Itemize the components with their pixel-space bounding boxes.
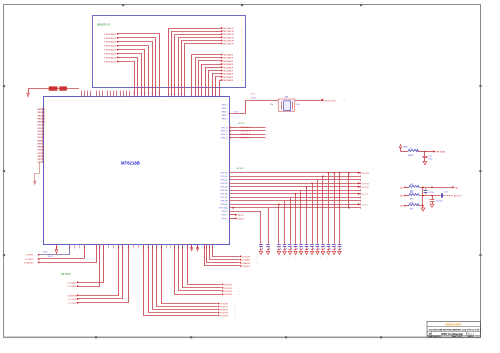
inductor L2 (408, 148, 419, 157)
svg-text:RF VBAT: RF VBAT (436, 151, 446, 154)
svg-text:GPO 12: GPO 12 (221, 131, 228, 133)
text title row (429, 328, 482, 331)
svg-text:1: 1 (178, 248, 179, 250)
capacitor CE10 (321, 245, 325, 251)
baseband IC U1 (44, 97, 230, 245)
net label MC1 (221, 57, 243, 60)
wire keypad row 3 (229, 182, 361, 184)
svg-text:LPD2 R: LPD2 R (224, 291, 232, 293)
svg-text:EINT0: EINT0 (37, 140, 44, 142)
svg-text:1: 1 (182, 248, 183, 250)
net label 32KXI (25, 258, 39, 261)
pins U1 bottom edge (69, 245, 213, 250)
wire keypad col drop 5 (295, 193, 297, 244)
wire P_MD3 (118, 46, 150, 97)
svg-text:C VRTC: C VRTC (25, 255, 34, 257)
wire keypad col drop 7 (306, 186, 308, 244)
svg-text:LSCK R: LSCK R (242, 256, 250, 258)
svg-text:BLM21: BLM21 (408, 155, 414, 157)
svg-text:KP13 1: KP13 1 (222, 218, 228, 220)
wire keypad row 10 (229, 207, 361, 209)
wire LCDR1 (78, 245, 100, 287)
svg-text:MCLK DSP: MCLK DSP (325, 100, 337, 102)
pin name row 10 (219, 208, 228, 210)
wire AD2 out (443, 195, 453, 197)
capacitor C73 (430, 200, 443, 204)
svg-text:MEMORY IF: MEMORY IF (97, 25, 111, 27)
svg-text:32K XI: 32K XI (48, 256, 54, 258)
net label KROW0 (358, 172, 370, 175)
svg-text:1: 1 (206, 248, 207, 250)
svg-text:KP0 140: KP0 140 (221, 173, 228, 175)
ground GE7 (305, 251, 309, 258)
net label MC3 (221, 63, 243, 66)
wire keypad row 8 (229, 200, 361, 202)
svg-text:7: 7 (212, 94, 213, 96)
svg-text:1: 1 (96, 94, 97, 96)
pin name row 1 (221, 176, 228, 178)
pins U1 top-left (81, 91, 130, 97)
wire MCLK out (295, 100, 322, 102)
svg-text:1 TCK: 1 TCK (234, 112, 240, 114)
wire LCDR0 (78, 245, 104, 283)
svg-text:7: 7 (205, 94, 206, 96)
svg-text:MCCM1 R: MCCM1 R (223, 31, 234, 33)
wire keypad row 9 (229, 203, 361, 205)
net label MA2 (221, 33, 243, 36)
svg-text:MCCM5 R: MCCM5 R (223, 44, 234, 46)
ground GE13 (338, 251, 342, 258)
logo MEDIATEK (446, 322, 463, 326)
svg-text:KP1 141: KP1 141 (221, 176, 228, 178)
power arrow VBAT (399, 144, 408, 151)
net label LPD0 (222, 284, 240, 287)
svg-text:22p: 22p (270, 104, 273, 106)
wire keypad col drop 1 (268, 208, 270, 244)
net label VB2 (400, 195, 406, 198)
wire keypad col drop 13 (339, 172, 341, 244)
text NC 0603 (239, 123, 246, 125)
wire LPD3 (175, 245, 222, 295)
svg-text:KP5 145: KP5 145 (221, 190, 228, 192)
pin name row 0 (221, 173, 228, 175)
net label KCOL1 (358, 193, 369, 196)
wire LRSTB (78, 245, 119, 296)
pin name row 9 (221, 204, 228, 206)
svg-text:1: 1 (212, 248, 213, 250)
svg-text:GPIO 1: GPIO 1 (222, 108, 228, 110)
svg-text:1: 1 (152, 248, 153, 250)
power net arrow VIO (27, 89, 30, 97)
wire MA5 (185, 44, 222, 97)
wire keypad row 0 (229, 172, 361, 174)
svg-text:1: 1 (103, 248, 104, 250)
svg-text:MCDA6 R: MCDA6 R (223, 73, 233, 76)
svg-text:1: 1 (113, 94, 114, 96)
svg-text:1: 1 (120, 94, 121, 96)
svg-text:MCDA4 R: MCDA4 R (223, 66, 233, 69)
svg-text:KP7 147: KP7 147 (221, 197, 228, 199)
text 22p 22p (270, 104, 299, 106)
svg-text:8: 8 (178, 94, 179, 96)
svg-text:ADC2 R: ADC2 R (454, 195, 462, 198)
pin name strip U1 left (37, 107, 45, 164)
net label MC0 (221, 54, 243, 57)
wire LPD7 (149, 245, 218, 313)
wire keypad row 11 (222, 211, 261, 213)
svg-text:URXD1: URXD1 (37, 147, 45, 149)
svg-text:URTS1: URTS1 (37, 156, 45, 158)
svg-text:1: 1 (84, 248, 85, 250)
svg-text:26M: 26M (285, 97, 289, 99)
wire P_MD1 (118, 38, 157, 97)
svg-text:KCOL1: KCOL1 (362, 194, 369, 196)
net label KROW3 (358, 182, 370, 185)
net label P_MD4 (104, 49, 118, 52)
svg-text:1: 1 (116, 94, 117, 96)
wire VB1 rail (419, 187, 452, 189)
svg-text:LSDA R: LSDA R (242, 259, 250, 262)
wire MC8 (220, 81, 222, 97)
svg-text:MCCM0 R: MCCM0 R (223, 28, 234, 30)
wire MC3 (202, 65, 222, 97)
svg-text:KP11 1: KP11 1 (222, 211, 228, 213)
junction dot row10 (232, 207, 234, 209)
wire MC7 (216, 77, 222, 97)
svg-text:8: 8 (181, 94, 182, 96)
svg-text:1: 1 (90, 94, 91, 96)
svg-text:GPIO26 R: GPIO26 R (240, 134, 251, 136)
wire LPD2 (179, 245, 222, 291)
net label LCD1 (68, 302, 78, 305)
wire MA0 (169, 29, 222, 97)
svg-text:1: 1 (123, 248, 124, 250)
net label LCD0 (68, 298, 78, 301)
svg-text:MCDA1 R: MCDA1 R (223, 57, 233, 60)
svg-text:1: 1 (99, 94, 100, 96)
pin name row 5 (221, 190, 228, 192)
wire keypad col drop 9 (317, 180, 319, 244)
svg-text:1: 1 (209, 248, 210, 250)
wire keypad col drop 4 (290, 197, 292, 244)
net label KROW4 (358, 186, 370, 189)
svg-text:KROW3: KROW3 (37, 118, 45, 120)
wire keypad col drop 8 (311, 183, 313, 244)
wire MC4 (206, 68, 222, 97)
wire LPCE (144, 245, 218, 316)
power arrow AVDD (190, 245, 192, 251)
net label LRSTB (67, 295, 78, 298)
wire P_MD2 (118, 42, 153, 97)
capacitor CE8 (310, 245, 314, 251)
svg-text:KROW1: KROW1 (37, 112, 45, 114)
svg-text:LSA0 R: LSA0 R (242, 262, 250, 265)
svg-text:KP8 148: KP8 148 (221, 201, 228, 203)
wire P_MD4 (118, 50, 146, 97)
wire VB1 in (405, 187, 409, 189)
svg-text:9: 9 (152, 94, 153, 96)
wire LPD5 (157, 245, 218, 307)
svg-text:P MCDA7 R: P MCDA7 R (104, 60, 116, 63)
svg-text:7: 7 (191, 94, 192, 96)
svg-text:MCDA3 R: MCDA3 R (223, 63, 233, 66)
wire L2 to RF_VBAT (418, 151, 434, 153)
svg-text:MCDA0 R: MCDA0 R (223, 54, 233, 57)
wire divider vertical (422, 187, 424, 205)
net label LPD6 (218, 309, 236, 312)
svg-text:LPD4 R: LPD4 R (220, 304, 228, 306)
resistor R33 (409, 202, 419, 210)
net label VKP stub2 (222, 218, 245, 221)
svg-text:1: 1 (191, 248, 192, 250)
text KEYPAD (61, 273, 71, 276)
svg-text:KP3 143: KP3 143 (221, 183, 228, 185)
wire MC0 (192, 55, 222, 97)
net label KCOL4 (358, 203, 369, 206)
wire keypad row 5 (229, 189, 361, 191)
wire VB3 rail (419, 205, 424, 207)
net label cluster VDD (49, 86, 67, 90)
wire VBAT to L2 (401, 151, 409, 153)
svg-text:8: 8 (184, 94, 185, 96)
svg-text:KP9 149: KP9 149 (221, 204, 228, 206)
svg-text:MCCM2 R: MCCM2 R (223, 34, 234, 36)
svg-text:KCOL4: KCOL4 (37, 136, 45, 139)
svg-text:GPIO 1: GPIO 1 (222, 115, 228, 117)
wire keypad col drop 10 (322, 176, 324, 244)
wire MC6 (213, 74, 222, 97)
svg-text:C70 1u: C70 1u (428, 192, 434, 194)
svg-text:7: 7 (208, 94, 209, 96)
wire LSA0 (207, 245, 240, 263)
svg-text:8: 8 (175, 94, 176, 96)
memory interface detail box (93, 16, 246, 88)
svg-text:1: 1 (99, 248, 100, 250)
svg-text:P MCDA0 R: P MCDA0 R (104, 33, 116, 36)
svg-text:100n: 100n (428, 159, 432, 161)
ground GE1 (266, 251, 270, 258)
wire keypad row 6 (229, 193, 361, 195)
svg-text:B 32KXO: B 32KXO (24, 262, 33, 264)
text R107 0R (234, 97, 289, 114)
wire LPD4 (162, 245, 218, 304)
net label MA1 (221, 30, 243, 33)
svg-text:7: 7 (215, 94, 216, 96)
svg-text:1: 1 (126, 94, 127, 96)
svg-text:1: 1 (96, 248, 97, 250)
wire 32KXI (39, 245, 85, 259)
wire keypad col drop 11 (328, 172, 330, 244)
wire P_MD7 (118, 62, 135, 97)
wire MA3 (179, 38, 222, 97)
svg-text:R32: R32 (410, 192, 413, 194)
svg-text:GPO 12: GPO 12 (221, 138, 228, 140)
net label LPD2 (222, 290, 240, 293)
svg-text:KCOL3: KCOL3 (37, 134, 45, 136)
wire keypad link vertical (348, 172, 350, 209)
svg-text:LPD0 R: LPD0 R (224, 284, 232, 286)
net label GPIO20 (229, 127, 268, 130)
svg-text:TP12: TP12 (251, 94, 256, 96)
net label VB3 (400, 205, 406, 208)
net label LPCE (218, 315, 236, 318)
wire LCD0 (78, 245, 123, 299)
svg-text:GND R: GND R (238, 218, 245, 220)
svg-text:1: 1 (204, 248, 205, 250)
svg-text:MCDA5 R: MCDA5 R (223, 70, 233, 73)
net label P_MD7 (104, 60, 118, 63)
capacitor CE11 (327, 245, 331, 251)
svg-text:P MCDA5 R: P MCDA5 R (104, 53, 116, 56)
svg-text:9: 9 (141, 94, 142, 96)
ground GE10 (321, 251, 325, 258)
svg-text:4K7: 4K7 (410, 199, 413, 201)
ground C73 (430, 204, 434, 207)
text B1 KEY (237, 168, 245, 170)
svg-text:1: 1 (102, 94, 103, 96)
wire 32KXO (39, 245, 97, 263)
svg-text:1: 1 (123, 94, 124, 96)
net label P_MD5 (104, 53, 118, 56)
svg-text:KCOL1: KCOL1 (37, 128, 45, 130)
svg-text:R33: R33 (410, 202, 413, 204)
svg-text:1: 1 (187, 248, 188, 250)
net label GPIO22 (229, 134, 268, 137)
svg-text:B6218: B6218 (468, 336, 473, 338)
svg-text:LSCE R: LSCE R (242, 266, 250, 268)
capacitor CE12 (332, 245, 336, 251)
net label LPD7 (218, 312, 236, 315)
net label MC8 (221, 79, 243, 82)
wire LSCK (213, 245, 240, 257)
svg-text:7: 7 (219, 94, 220, 96)
ground GE12 (332, 251, 336, 258)
svg-text:C73 100n: C73 100n (435, 200, 442, 202)
net label MA4 (221, 40, 243, 43)
wire cap drop C72 (424, 152, 426, 156)
ground GE5 (294, 251, 298, 258)
pin name row 8 (221, 201, 228, 203)
svg-text:KROW3: KROW3 (362, 183, 370, 185)
ground GE6 (299, 251, 303, 258)
net label MA5 (221, 43, 243, 46)
svg-text:C LCD0: C LCD0 (68, 299, 77, 301)
wire P_MD6 (118, 58, 139, 97)
svg-text:1: 1 (157, 248, 158, 250)
pin name row 2 (221, 180, 228, 182)
svg-text:GPO12: GPO12 (37, 159, 45, 161)
capacitor CE6 (299, 245, 303, 251)
svg-text:GPO 12: GPO 12 (221, 127, 228, 129)
svg-text:B1 KEY: B1 KEY (237, 168, 245, 170)
net label MCLK (321, 99, 346, 103)
svg-text:Title MT6218B KEYPAD MEMORY LC: Title MT6218B KEYPAD MEMORY LCD IF Rev1.… (429, 328, 482, 331)
svg-text:1: 1 (107, 94, 108, 96)
svg-text:KROW2: KROW2 (37, 115, 45, 117)
svg-text:Rev 1.2: Rev 1.2 (467, 334, 474, 336)
wire keypad row 2 (229, 179, 361, 181)
title block (427, 322, 481, 338)
svg-text:1: 1 (69, 248, 70, 250)
net label MA3 (221, 37, 243, 40)
wire KPROW stub (35, 163, 40, 182)
wire VB3 in (405, 205, 409, 207)
svg-text:KROW0: KROW0 (362, 173, 370, 175)
svg-text:GPIO 1: GPIO 1 (222, 118, 228, 120)
wire C73 drop (432, 196, 434, 200)
capacitor CE9 (316, 245, 320, 251)
net label MC6 (221, 73, 243, 76)
svg-text:KCOL4: KCOL4 (362, 204, 369, 206)
net label MC4 (221, 66, 243, 69)
svg-text:GPIO27 R: GPIO27 R (240, 137, 251, 139)
wire MC1 (196, 58, 222, 97)
svg-text:KCOL0: KCOL0 (37, 125, 45, 127)
svg-text:P MCDA6 R: P MCDA6 R (104, 57, 116, 60)
svg-text:GPO 12: GPO 12 (221, 134, 228, 136)
svg-text:GPIO 1: GPIO 1 (222, 104, 228, 106)
svg-text:C LRSTB: C LRSTB (67, 295, 77, 297)
svg-text:GPIO25 R: GPIO25 R (240, 131, 251, 133)
wire keypad row 1 (229, 175, 361, 177)
ground GE11 (327, 251, 331, 258)
net label LPD4 (218, 303, 236, 306)
svg-text:MCCM4 R: MCCM4 R (223, 40, 234, 42)
ground GE2 (277, 251, 281, 258)
net label LSA0 (240, 262, 258, 265)
svg-text:1: 1 (161, 248, 162, 250)
svg-text:1: 1 (118, 248, 119, 250)
svg-text:KP6 146: KP6 146 (221, 194, 228, 196)
wire VB2 in (405, 195, 409, 197)
svg-text:LPCE R: LPCE R (220, 316, 228, 318)
svg-text:P MCDA3 R: P MCDA3 R (104, 45, 116, 48)
text TP note (251, 94, 256, 96)
net label P_MD6 (104, 57, 118, 60)
svg-text:MCCM3 R: MCCM3 R (223, 37, 234, 39)
svg-text:1: 1 (110, 94, 111, 96)
svg-text:KROW0: KROW0 (37, 109, 45, 111)
svg-text:GPIO24 R: GPIO24 R (240, 127, 251, 129)
resistor R32 (409, 192, 419, 200)
wire keypad col drop 12 (333, 172, 335, 244)
net label VKP stub1 (222, 214, 244, 217)
wire keypad col drop 3 (284, 201, 286, 244)
capacitor CE5 (294, 245, 298, 251)
svg-text:8: 8 (171, 94, 172, 96)
wire P_MD5 (118, 54, 142, 97)
svg-text:1: 1 (84, 94, 85, 96)
svg-text:NC 06: NC 06 (239, 123, 246, 125)
net label LPD5 (218, 306, 236, 309)
capacitor CE2 (277, 245, 281, 251)
wire LPD1 (183, 245, 222, 288)
crystal X1 (278, 99, 295, 111)
svg-text:KP10 1410: KP10 1410 (219, 208, 228, 210)
wire MC2 (199, 61, 222, 97)
svg-text:KP12 1: KP12 1 (222, 215, 228, 217)
wire XTAL in (229, 101, 279, 114)
ground GE9 (316, 251, 320, 258)
net label 32KXO (24, 262, 39, 265)
svg-text:R31: R31 (410, 184, 413, 186)
net label RF_VBAT (433, 150, 446, 153)
svg-text:9: 9 (144, 94, 145, 96)
svg-text:MCDA8 R: MCDA8 R (223, 79, 233, 82)
text footer row (429, 335, 473, 338)
net label LCDR0 (67, 282, 79, 285)
svg-text:C LCDR1: C LCDR1 (67, 286, 77, 288)
